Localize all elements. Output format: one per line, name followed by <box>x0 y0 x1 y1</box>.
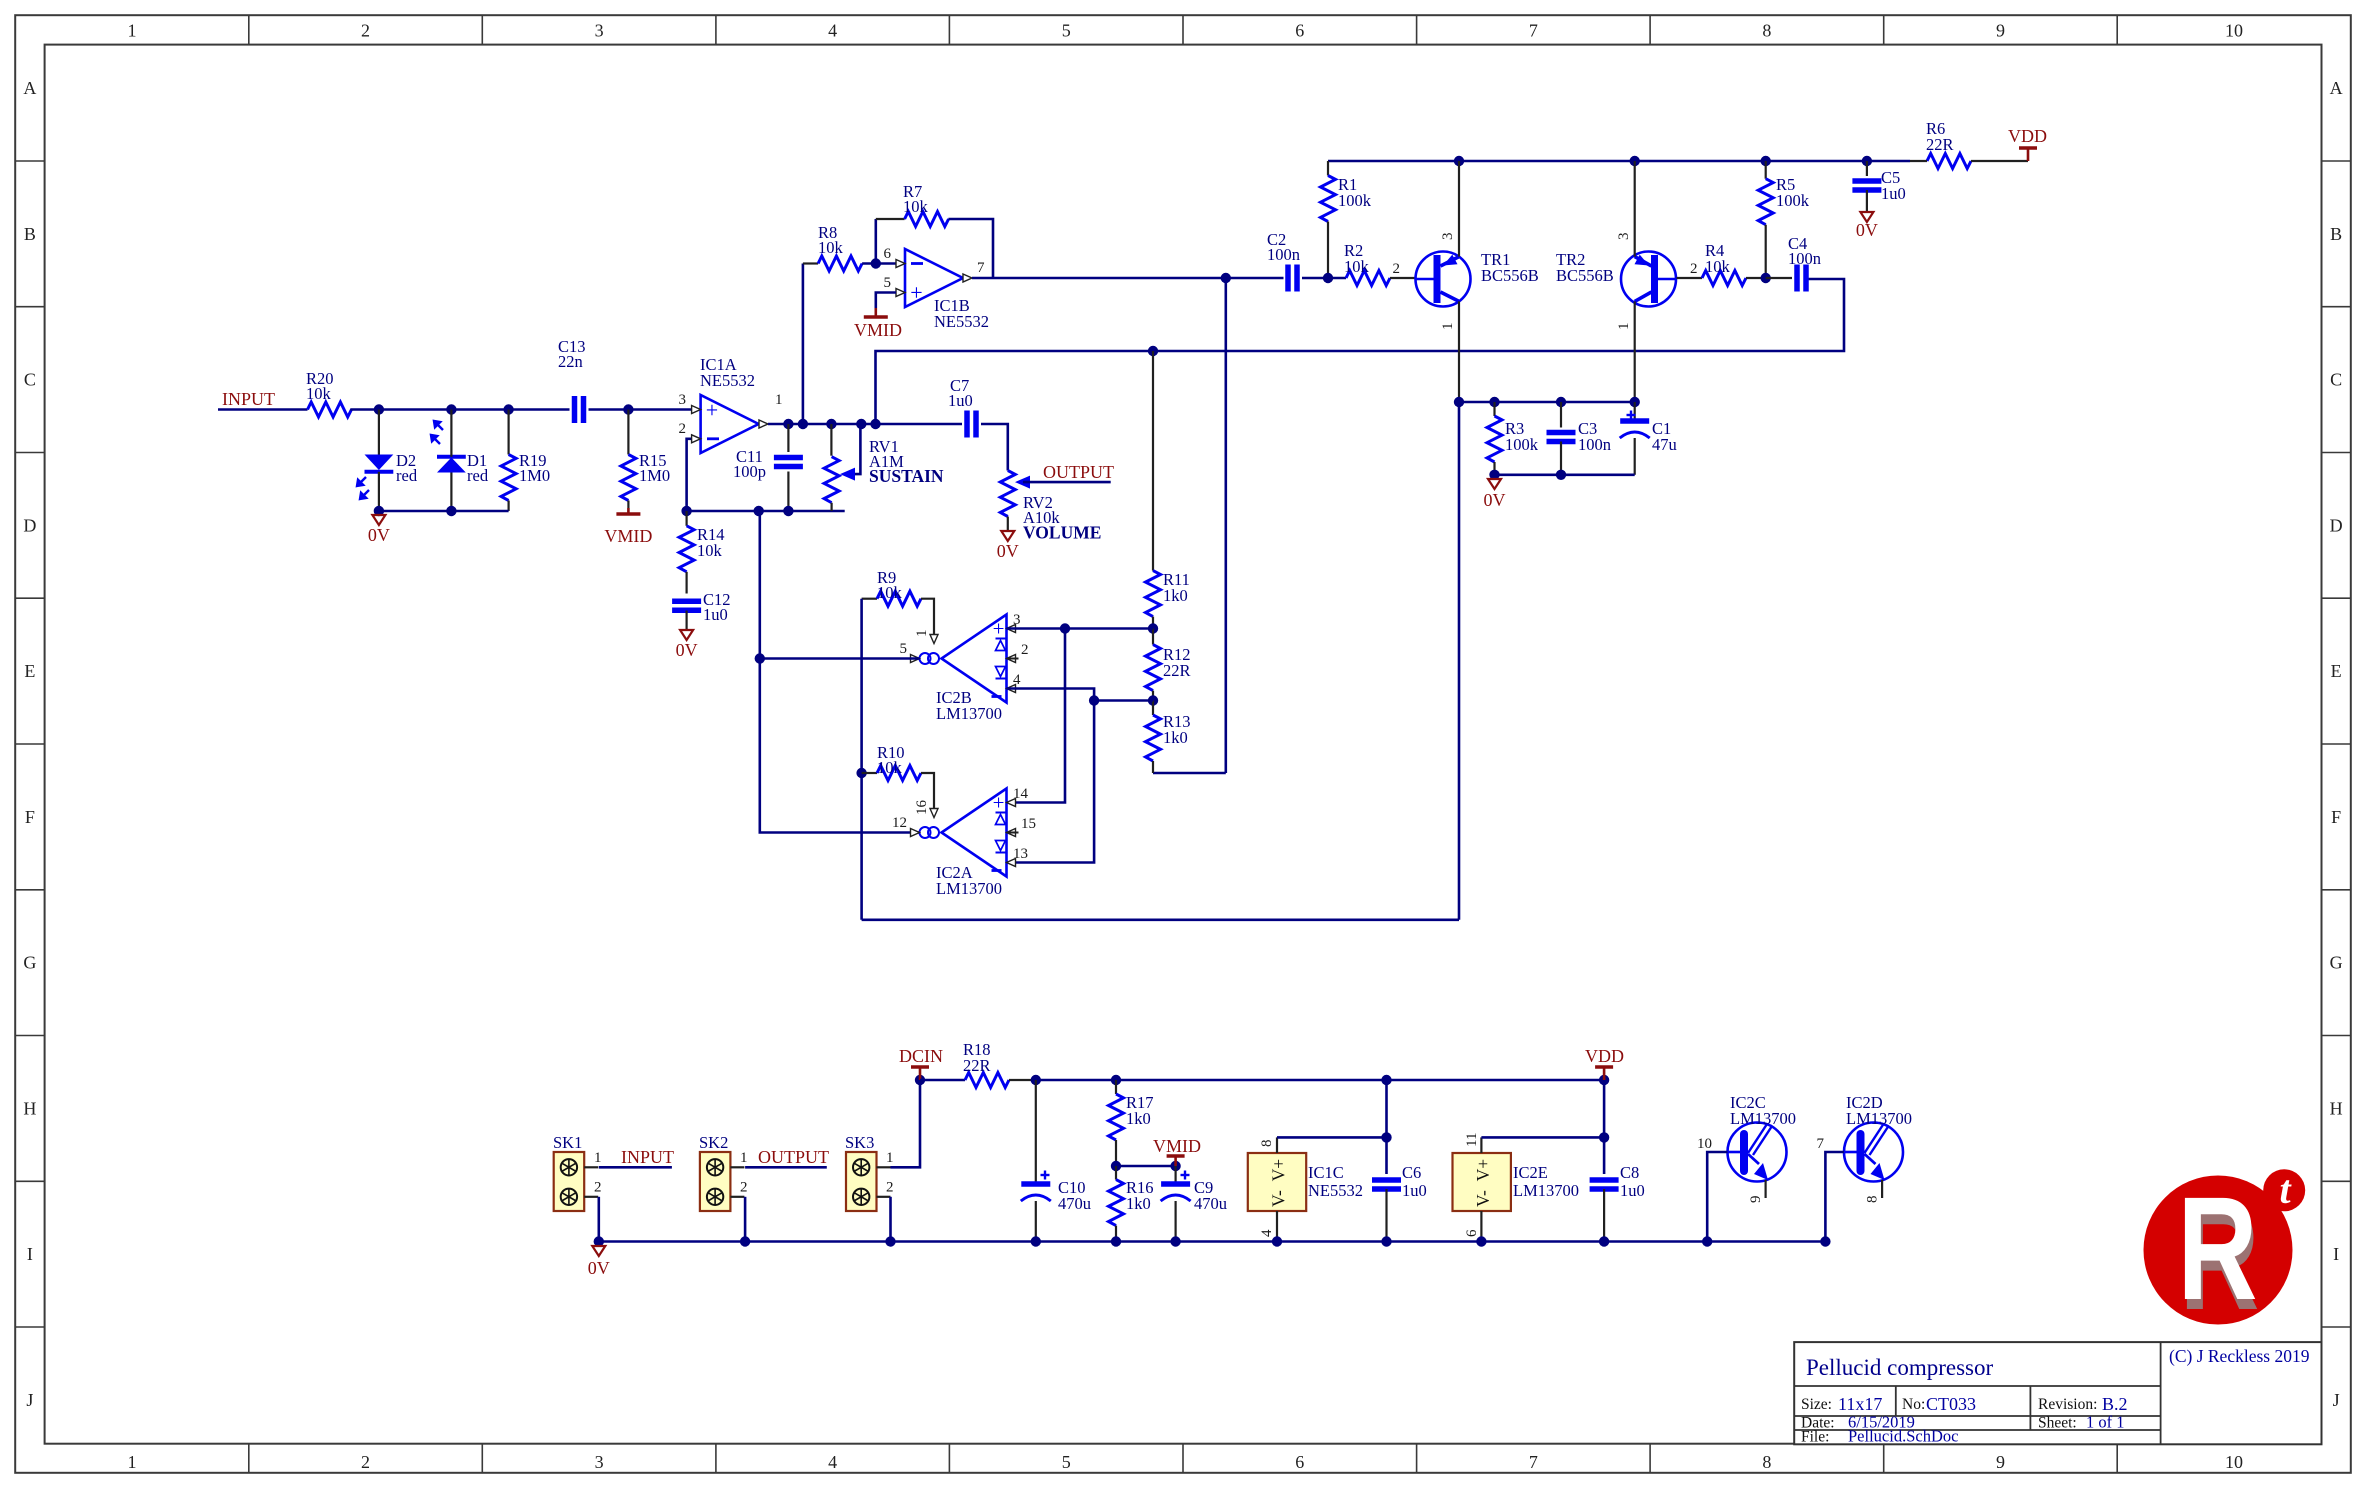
svg-text:1u0: 1u0 <box>1402 1181 1427 1200</box>
power VMID at IC1B <box>874 308 877 317</box>
svg-text:LM13700: LM13700 <box>936 704 1002 723</box>
capacitor C7 <box>961 423 963 425</box>
wire SK1 INPUT stub <box>599 1166 672 1169</box>
svg-text:Pellucid compressor: Pellucid compressor <box>1806 1355 1993 1380</box>
svg-text:F: F <box>25 807 35 827</box>
junction SK3 gnd <box>885 1236 895 1246</box>
wire IC1B out drop <box>1225 278 1228 773</box>
wire C7 to RV2 <box>981 424 1008 471</box>
svg-text:22n: 22n <box>558 352 583 371</box>
svg-text:Pellucid.SchDoc: Pellucid.SchDoc <box>1848 1427 1958 1446</box>
svg-text:10k: 10k <box>1705 257 1731 276</box>
svg-text:5: 5 <box>900 641 908 657</box>
title block frame <box>1794 1342 2321 1444</box>
svg-text:22R: 22R <box>963 1056 991 1075</box>
svg-text:11x17: 11x17 <box>1838 1394 1882 1414</box>
svg-text:2: 2 <box>740 1180 748 1196</box>
svg-text:8: 8 <box>1865 1196 1881 1204</box>
op-amp IC1A <box>701 395 759 453</box>
svg-text:1: 1 <box>128 21 137 41</box>
capacitor C3 <box>1560 402 1562 428</box>
transistor IC2C buffer <box>1728 1123 1787 1182</box>
wire IC1B output <box>972 277 1284 280</box>
resistor R3 <box>1493 402 1495 416</box>
wire TR2 emitter up <box>1634 161 1636 257</box>
svg-text:1k0: 1k0 <box>1163 586 1188 605</box>
junction SK1 gnd <box>594 1236 604 1246</box>
svg-text:4: 4 <box>1013 672 1021 688</box>
svg-text:t: t <box>2279 1167 2292 1212</box>
wire decouple bottom rail <box>1495 473 1635 476</box>
svg-text:C: C <box>24 370 36 390</box>
svg-text:7: 7 <box>1529 1452 1538 1472</box>
wire IC1C pin8 <box>1276 1137 1278 1153</box>
svg-text:J: J <box>26 1390 33 1410</box>
capacitor C6 <box>1385 1080 1388 1174</box>
svg-text:+: + <box>706 398 718 423</box>
svg-text:100k: 100k <box>1776 191 1810 210</box>
resistor R16 <box>1115 1166 1117 1180</box>
capacitor C10 <box>1035 1080 1037 1184</box>
connector SK3 <box>846 1152 877 1211</box>
wire C2 to R2 <box>1302 277 1346 280</box>
junction R11 top <box>1148 346 1158 356</box>
wire OUTPUT net <box>1023 481 1111 484</box>
svg-text:9: 9 <box>1996 21 2005 41</box>
svg-text:NE5532: NE5532 <box>934 312 989 331</box>
svg-text:7: 7 <box>1529 21 1538 41</box>
svg-text:1: 1 <box>914 630 930 638</box>
svg-text:Sheet:: Sheet: <box>2038 1415 2077 1432</box>
wire IC1A output <box>768 423 962 426</box>
svg-text:1: 1 <box>886 1150 894 1166</box>
capacitor C4 <box>1766 277 1792 279</box>
svg-text:1k0: 1k0 <box>1126 1109 1151 1128</box>
junction C10 gnd <box>1031 1236 1041 1246</box>
wire SK3 pin2 down <box>889 1197 892 1242</box>
svg-text:NE5532: NE5532 <box>1308 1181 1363 1200</box>
svg-text:2: 2 <box>886 1180 894 1196</box>
junction R3 bottom <box>1489 470 1499 480</box>
wire pin13 riser <box>1007 701 1095 863</box>
svg-text:100n: 100n <box>1267 245 1300 264</box>
svg-text:9: 9 <box>1996 1452 2005 1472</box>
svg-text:2: 2 <box>1021 642 1029 658</box>
resistor R17 <box>1115 1080 1117 1094</box>
wire IC2E pin11 <box>1480 1137 1482 1153</box>
junction R4 R5 C4 <box>1761 273 1771 283</box>
resistor R15 <box>627 410 629 455</box>
svg-text:10k: 10k <box>877 583 903 602</box>
svg-text:6: 6 <box>1295 21 1304 41</box>
junction pin5 feed <box>755 653 765 663</box>
capacitor C9 <box>1174 1166 1176 1184</box>
wire SK2 pin2 down <box>744 1197 747 1242</box>
svg-text:1M0: 1M0 <box>519 466 550 485</box>
wire SK1 pin2 down <box>597 1197 600 1242</box>
transistor TR2 BC556B <box>1621 252 1676 307</box>
svg-text:1: 1 <box>775 392 783 408</box>
svg-text:2: 2 <box>361 21 370 41</box>
svg-text:3: 3 <box>679 392 687 408</box>
svg-text:SK1: SK1 <box>553 1133 582 1152</box>
wire R12R13 link <box>1094 699 1153 702</box>
svg-text:10k: 10k <box>697 541 723 560</box>
svg-text:4: 4 <box>1259 1229 1275 1237</box>
junction TR1 col rail <box>1454 397 1464 407</box>
svg-text:BC556B: BC556B <box>1556 266 1614 285</box>
junction C9 gnd <box>1170 1236 1180 1246</box>
connector SK1 <box>554 1152 585 1211</box>
svg-text:5: 5 <box>1062 1452 1071 1472</box>
svg-text:10k: 10k <box>1344 257 1370 276</box>
svg-text:1k0: 1k0 <box>1126 1194 1151 1213</box>
svg-text:1u0: 1u0 <box>948 391 973 410</box>
wire VDD top rail <box>1328 160 1910 163</box>
capacitor C2 <box>1285 265 1291 292</box>
power 0V at C5 <box>1866 206 1868 212</box>
svg-text:0V: 0V <box>368 525 390 545</box>
svg-text:I: I <box>27 1244 33 1264</box>
svg-text:+: + <box>993 617 1005 641</box>
svg-text:H: H <box>23 1098 36 1118</box>
svg-text:3: 3 <box>1013 612 1021 628</box>
transistor IC2D buffer <box>1844 1123 1903 1182</box>
svg-text:0V: 0V <box>588 1258 610 1278</box>
svg-text:10k: 10k <box>877 758 903 777</box>
svg-text:470u: 470u <box>1058 1194 1091 1213</box>
svg-text:BC556B: BC556B <box>1481 266 1539 285</box>
svg-text:100p: 100p <box>733 462 766 481</box>
svg-text:0V: 0V <box>997 541 1019 561</box>
svg-text:C8: C8 <box>1620 1163 1639 1182</box>
svg-text:D: D <box>2330 515 2343 535</box>
junction node R19 <box>503 404 513 414</box>
capacitor C8 <box>1603 1080 1606 1174</box>
junction RV1 wiper <box>856 419 866 429</box>
svg-text:100k: 100k <box>1338 191 1372 210</box>
wire IC2C pin10 <box>1707 1152 1727 1242</box>
wire INPUT net <box>218 408 308 411</box>
junction C9 top <box>1170 1161 1180 1171</box>
junction C6 gnd <box>1381 1236 1391 1246</box>
power 0V at C12 <box>680 630 693 640</box>
svg-text:Size:: Size: <box>1801 1396 1832 1413</box>
svg-text:16: 16 <box>914 800 930 816</box>
junction R17 R16 <box>1111 1161 1121 1171</box>
svg-text:A: A <box>23 78 36 98</box>
svg-text:1k0: 1k0 <box>1163 728 1188 747</box>
svg-text:7: 7 <box>1817 1136 1825 1152</box>
svg-text:1: 1 <box>1440 323 1456 331</box>
svg-text:+: + <box>910 280 922 305</box>
junction IC2D gnd <box>1820 1236 1830 1246</box>
junction TR2 emitter rail <box>1630 156 1640 166</box>
svg-text:6: 6 <box>1464 1229 1480 1237</box>
svg-text:4: 4 <box>828 1452 837 1472</box>
resistor R1 <box>1327 161 1329 176</box>
capacitor C12 <box>672 598 701 604</box>
wire IC1B pin5 <box>876 293 896 309</box>
wire C13 to IC1A pin3 <box>589 408 692 411</box>
wire SK2 OUTPUT stub <box>745 1166 827 1169</box>
junction IC2C gnd <box>1702 1236 1712 1246</box>
power VDD mid <box>1599 1075 1609 1085</box>
svg-text:Revision:: Revision: <box>2038 1396 2097 1413</box>
junction R1 bottom <box>1323 273 1333 283</box>
svg-text:22R: 22R <box>1163 661 1191 680</box>
resistor R5 <box>1765 161 1767 179</box>
svg-text:6: 6 <box>1295 1452 1304 1472</box>
resistor R7 <box>876 218 905 220</box>
wire R8 vertical <box>802 264 805 425</box>
svg-text:G: G <box>23 953 36 973</box>
svg-text:H: H <box>2330 1098 2343 1118</box>
svg-text:VDD: VDD <box>1585 1046 1624 1066</box>
wire IC2B pin3 <box>1007 627 1154 630</box>
svg-text:(C) J Reckless 2019: (C) J Reckless 2019 <box>2169 1346 2310 1366</box>
svg-text:B.2: B.2 <box>2102 1394 2128 1414</box>
wire IC1A pin2 feedback <box>687 439 691 511</box>
svg-text:INPUT: INPUT <box>222 389 275 409</box>
resistor R13 <box>1152 701 1154 716</box>
svg-text:1u0: 1u0 <box>1620 1181 1645 1200</box>
svg-text:0V: 0V <box>1484 490 1506 510</box>
wire R9 R10 left leg <box>860 599 863 920</box>
svg-text:OUTPUT: OUTPUT <box>758 1147 829 1167</box>
junction C11 top <box>783 419 793 429</box>
junction TR1 emitter rail <box>1454 156 1464 166</box>
svg-text:red: red <box>396 466 418 485</box>
svg-text:0V: 0V <box>1856 220 1878 240</box>
capacitor C13 <box>572 396 578 423</box>
svg-text:C6: C6 <box>1402 1163 1421 1182</box>
junction C8 gnd <box>1599 1236 1609 1246</box>
svg-text:3: 3 <box>595 21 604 41</box>
svg-text:C: C <box>2330 370 2342 390</box>
svg-text:A: A <box>2330 78 2343 98</box>
svg-text:VMID: VMID <box>604 526 652 546</box>
svg-text:B: B <box>2330 224 2342 244</box>
svg-text:10: 10 <box>2225 1452 2243 1472</box>
resistor R6 <box>1927 154 1971 169</box>
svg-text:SK3: SK3 <box>845 1133 874 1152</box>
svg-text:5: 5 <box>1062 21 1071 41</box>
svg-text:CT033: CT033 <box>1926 1394 1976 1414</box>
junction fb sense <box>870 419 880 429</box>
wire compare bus <box>876 279 1845 424</box>
svg-text:1: 1 <box>594 1150 602 1166</box>
svg-text:8: 8 <box>1259 1140 1275 1148</box>
connector SK2 <box>700 1152 731 1211</box>
junction pin6 node <box>871 258 881 268</box>
svg-text:3: 3 <box>595 1452 604 1472</box>
svg-text:2: 2 <box>594 1180 602 1196</box>
wire IC2E pin6 <box>1480 1211 1482 1242</box>
resistor R20 <box>308 402 352 417</box>
junction R16 gnd <box>1111 1236 1121 1246</box>
resistor R18 <box>920 1079 965 1082</box>
junction C6 top <box>1381 1075 1391 1085</box>
wire SK3 pin1 to DCIN <box>891 1080 921 1167</box>
OTA IC2B LM13700 <box>942 615 1007 703</box>
power 0V at RV2 <box>1001 531 1014 541</box>
svg-text:1u0: 1u0 <box>1881 184 1906 203</box>
junction C10 top <box>1031 1075 1041 1085</box>
junction C3 top <box>1556 397 1566 407</box>
svg-text:10: 10 <box>2225 21 2243 41</box>
wire R20 to C13 <box>350 408 569 411</box>
wire OTA bottom return <box>862 918 1459 921</box>
junction C1 top <box>1630 397 1640 407</box>
wire TR1 emitter up <box>1458 161 1460 257</box>
svg-text:2: 2 <box>679 421 687 437</box>
svg-text:470u: 470u <box>1194 1194 1227 1213</box>
wire diode bottom bus <box>379 510 509 513</box>
svg-text:VOLUME: VOLUME <box>1023 523 1101 543</box>
junction R8 drop <box>798 419 808 429</box>
power pins IC2E <box>1453 1153 1511 1211</box>
svg-text:+: + <box>993 791 1005 815</box>
svg-text:10: 10 <box>1697 1136 1712 1152</box>
svg-text:red: red <box>467 466 489 485</box>
wire R7 left leg <box>874 219 877 264</box>
junction IC1C gnd <box>1272 1236 1282 1246</box>
svg-text:R: R <box>2178 1167 2258 1331</box>
wire IC2D pin7 <box>1825 1152 1844 1242</box>
LED D2 <box>365 455 394 471</box>
svg-text:11: 11 <box>1464 1133 1480 1147</box>
svg-text:10k: 10k <box>818 238 844 257</box>
svg-text:B: B <box>24 224 36 244</box>
svg-text:3: 3 <box>1616 233 1632 241</box>
op-amp IC1B <box>905 249 963 307</box>
logo Rt <box>2144 1176 2293 1325</box>
svg-text:E: E <box>2331 661 2342 681</box>
svg-text:6: 6 <box>884 246 892 262</box>
svg-text:12: 12 <box>892 815 907 831</box>
svg-text:D: D <box>23 515 36 535</box>
svg-text:VDD: VDD <box>2008 126 2047 146</box>
wire TR1 collector long <box>1458 402 1461 920</box>
svg-text:SUSTAIN: SUSTAIN <box>869 466 944 486</box>
svg-text:47u: 47u <box>1652 435 1677 454</box>
svg-text:J: J <box>2333 1390 2340 1410</box>
svg-text:1: 1 <box>740 1150 748 1166</box>
svg-text:5: 5 <box>884 275 892 291</box>
svg-text:100n: 100n <box>1788 249 1821 268</box>
power pins IC1C <box>1248 1153 1306 1211</box>
junction pin3 pin14 tie <box>1060 623 1070 633</box>
svg-text:IC1C: IC1C <box>1308 1163 1344 1182</box>
svg-text:100k: 100k <box>1505 435 1539 454</box>
junction DCIN <box>915 1075 925 1085</box>
svg-text:1M0: 1M0 <box>639 466 670 485</box>
capacitor C5 <box>1866 161 1868 176</box>
svg-text:LM13700: LM13700 <box>1730 1109 1796 1128</box>
junction R12 R13 <box>1148 695 1158 705</box>
wire inverting bus <box>687 510 845 513</box>
capacitor C11 <box>787 424 789 452</box>
svg-text:100n: 100n <box>1578 435 1611 454</box>
wire IC2B pin5 feed <box>760 657 920 660</box>
svg-text:F: F <box>2331 807 2341 827</box>
junction C3 bottom <box>1556 470 1566 480</box>
wire R13 bottom link <box>1153 772 1226 775</box>
junction C6 pin8 <box>1381 1132 1391 1142</box>
svg-text:22R: 22R <box>1926 135 1954 154</box>
potentiometer RV2 <box>1000 471 1015 517</box>
svg-text:1 of 1: 1 of 1 <box>2086 1413 2125 1432</box>
power 0V at R3 <box>1488 479 1501 489</box>
resistor R12 <box>1152 629 1154 645</box>
svg-text:V- V+: V- V+ <box>1473 1159 1493 1207</box>
wire VDD dist rail <box>1036 1079 1604 1082</box>
svg-text:2: 2 <box>361 1452 370 1472</box>
junction node D1 <box>446 404 456 414</box>
wire VMID jog <box>1116 1165 1176 1168</box>
svg-text:9: 9 <box>1748 1196 1764 1204</box>
svg-text:1: 1 <box>128 1452 137 1472</box>
power DCIN <box>919 1067 922 1080</box>
wire pin5 vertical <box>758 511 761 659</box>
svg-text:2: 2 <box>1393 261 1401 277</box>
junction IC1B out branch <box>1221 273 1231 283</box>
junction RV1 top <box>826 419 836 429</box>
wire pin12 vertical <box>760 659 920 833</box>
power VDD right <box>2027 148 2030 161</box>
power VMID at R15 <box>627 508 630 514</box>
svg-text:VMID: VMID <box>1153 1136 1201 1156</box>
wire TR2 collector down <box>1634 301 1636 402</box>
wire TR1 collector down <box>1458 301 1460 402</box>
junction R5 rail <box>1761 156 1771 166</box>
svg-text:NE5532: NE5532 <box>700 371 755 390</box>
potentiometer RV1 <box>830 424 832 456</box>
LED D1 <box>437 455 466 459</box>
junction C8 pin11 <box>1599 1132 1609 1142</box>
junction IC2E gnd <box>1476 1236 1486 1246</box>
svg-text:2: 2 <box>1690 261 1698 277</box>
svg-text:VMID: VMID <box>854 320 902 340</box>
svg-text:IC2E: IC2E <box>1513 1163 1548 1182</box>
junction R3 top <box>1489 397 1499 407</box>
resistor R9 <box>862 598 877 600</box>
svg-text:INPUT: INPUT <box>621 1147 674 1167</box>
svg-text:13: 13 <box>1013 846 1028 862</box>
OTA IC2A LM13700 <box>942 789 1007 877</box>
svg-text:E: E <box>24 661 35 681</box>
resistor R10 <box>862 772 877 774</box>
junction R11 R12 <box>1148 623 1158 633</box>
wire ground rail <box>599 1240 1826 1243</box>
svg-text:10k: 10k <box>306 384 332 403</box>
power 0V at D2 <box>372 515 385 525</box>
resistor R11 <box>1152 351 1154 571</box>
svg-text:0V: 0V <box>676 640 698 660</box>
svg-text:OUTPUT: OUTPUT <box>1043 462 1114 482</box>
resistor R2 <box>1346 271 1390 286</box>
wire decouple top rail <box>1459 401 1635 404</box>
svg-text:14: 14 <box>1013 786 1029 802</box>
svg-text:8: 8 <box>1762 1452 1771 1472</box>
resistor R4 <box>1677 277 1703 279</box>
junction C5 rail <box>1862 156 1872 166</box>
wire pin14 riser <box>1007 629 1066 803</box>
svg-text:10k: 10k <box>903 197 929 216</box>
svg-text:15: 15 <box>1021 816 1036 832</box>
junction SK2 gnd <box>740 1236 750 1246</box>
